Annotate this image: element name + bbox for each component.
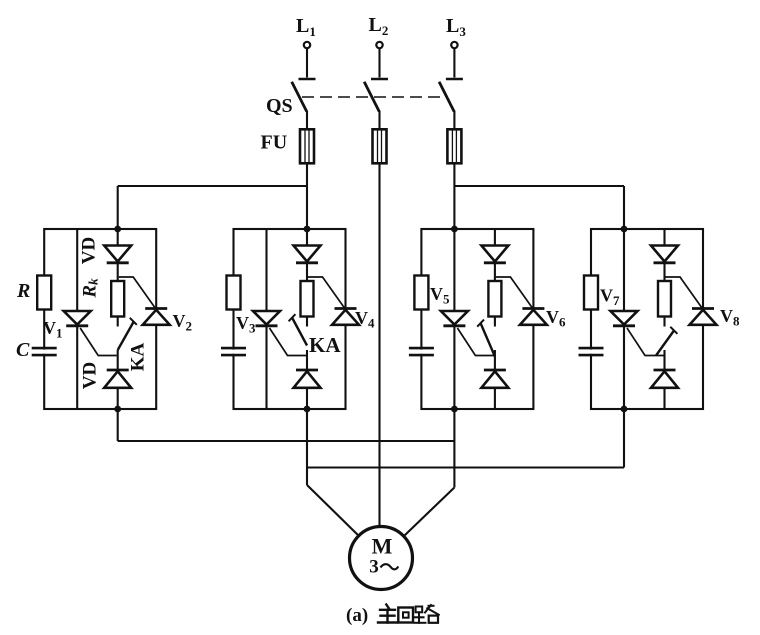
svg-text:(a): (a) [346, 605, 368, 626]
svg-text:QS: QS [266, 95, 293, 117]
svg-text:KA: KA [127, 342, 148, 371]
svg-text:VD: VD [79, 362, 100, 389]
svg-text:VD: VD [78, 237, 99, 264]
svg-text:KA: KA [309, 333, 341, 357]
svg-text:M: M [372, 534, 393, 559]
svg-text:C: C [16, 339, 30, 361]
svg-text:FU: FU [261, 132, 288, 154]
svg-text:3: 3 [369, 557, 379, 578]
svg-text:R: R [16, 280, 30, 302]
